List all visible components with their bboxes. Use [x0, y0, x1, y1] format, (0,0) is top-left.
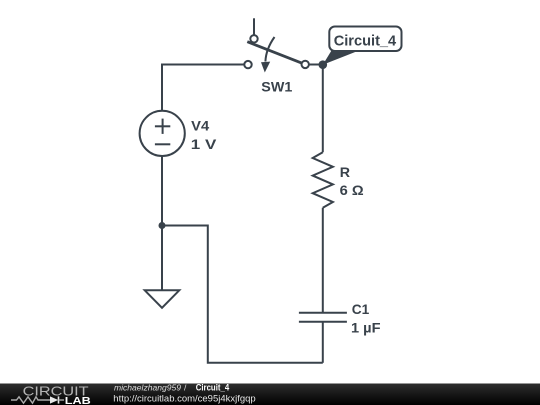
switch SW1 actuation arrow	[265, 37, 274, 62]
wire: capacitor bottom to rail	[322, 322, 324, 363]
voltage source V4 body	[140, 111, 185, 156]
capacitor C1 bottom plate	[299, 321, 347, 323]
svg-text:http://circuitlab.com/ce95j4kx: http://circuitlab.com/ce95j4kxjfgqp	[113, 393, 255, 403]
svg-text:V4: V4	[191, 118, 209, 134]
junction: node at V4 bottom	[159, 222, 166, 229]
switch SW1 contact terminal top	[250, 35, 257, 42]
switch SW1 blade	[247, 42, 305, 65]
svg-text:Circuit_4: Circuit_4	[196, 383, 230, 393]
svg-text:1 V: 1 V	[191, 136, 217, 152]
svg-text:C1: C1	[352, 301, 370, 317]
node label callout Circuit_4 tail	[323, 51, 359, 65]
wire: resistor bottom to capacitor top	[322, 208, 324, 313]
switch SW1 contact terminal right (pole)	[302, 61, 309, 68]
junction: node at switch output	[319, 60, 328, 69]
svg-text:michaelzhang959: michaelzhang959	[114, 383, 181, 393]
wire: bottom return rail	[162, 226, 323, 363]
node label callout Circuit_4 box	[329, 27, 401, 52]
svg-text:1 µF: 1 µF	[351, 319, 381, 335]
wire: node to resistor top	[322, 65, 324, 153]
wire: V4 top to switch left contact	[162, 65, 248, 112]
svg-text:LAB: LAB	[65, 395, 91, 405]
ground symbol	[145, 290, 180, 308]
capacitor C1 top plate	[299, 312, 347, 314]
svg-text:Circuit_4: Circuit_4	[334, 32, 397, 49]
wire: switch top stub	[253, 18, 255, 39]
CircuitLab logo resistor zigzag	[11, 397, 50, 403]
V4 plus symbol	[155, 125, 170, 127]
CircuitLab logo diode	[50, 396, 58, 403]
wire: switch right contact to node junction	[306, 64, 323, 66]
resistor R zigzag	[313, 152, 333, 208]
svg-text:6 Ω: 6 Ω	[340, 182, 364, 198]
svg-text:R: R	[340, 164, 350, 180]
wire: V4 bottom to ground	[161, 156, 163, 290]
svg-text:SW1: SW1	[261, 78, 292, 94]
V4 minus symbol	[155, 143, 170, 145]
switch SW1 contact terminal left	[244, 61, 251, 68]
